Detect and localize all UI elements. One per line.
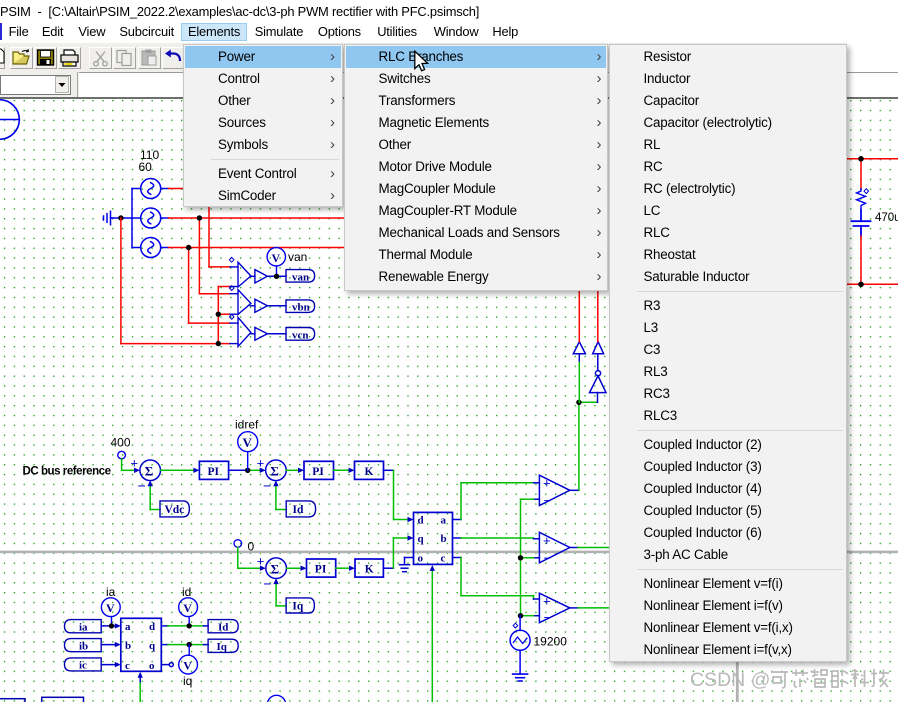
port 0: [234, 540, 242, 548]
svg-text:b: b: [125, 640, 131, 652]
ground (3-phase neutral): [104, 211, 113, 224]
label tag ib: [65, 639, 102, 653]
wire: K1 to dq block d input: [384, 470, 414, 522]
svg-text:19200: 19200: [534, 634, 568, 648]
AC source VC: [141, 238, 161, 258]
svg-text:Id: Id: [293, 504, 304, 516]
svg-text:c: c: [125, 660, 130, 672]
wire: S3 out to PI3: [286, 567, 301, 569]
summer S3: [257, 553, 287, 591]
wire: ib to U5: [101, 642, 121, 647]
wire: phase C red: [169, 248, 344, 324]
svg-text:+: +: [543, 594, 551, 609]
svg-text:−: −: [263, 575, 271, 591]
svg-text:+: +: [543, 476, 551, 491]
svg-text:Vdc: Vdc: [165, 504, 185, 516]
wire: U5 o out open: [161, 663, 173, 667]
port 400: [118, 451, 126, 459]
svg-text:+: +: [257, 456, 265, 471]
ammeter ia: [101, 598, 120, 626]
svg-text:vbn: vbn: [292, 302, 310, 314]
ammeter iq: [179, 645, 198, 674]
label tag ia: [65, 620, 102, 634]
wire: CMP1 output up to gate node: [570, 402, 598, 490]
label tag Vdc: [160, 501, 189, 517]
svg-text:DC bus reference: DC bus reference: [23, 466, 111, 478]
svg-text:K: K: [365, 466, 374, 478]
label tag Id (measured): [208, 620, 238, 634]
wire: ia to U5: [101, 623, 121, 628]
svg-text:PI: PI: [315, 564, 327, 576]
marker diamond R: [864, 189, 869, 194]
svg-text:−: −: [544, 550, 552, 565]
inverter NOT1: [590, 371, 607, 403]
voltmeter idref: [238, 432, 258, 471]
svg-text:Σ: Σ: [270, 464, 279, 479]
svg-text:470u: 470u: [875, 212, 898, 224]
summer S1: [131, 456, 161, 494]
svg-text:c: c: [441, 553, 446, 565]
wire: CMP2 output: [570, 547, 609, 549]
comparator CMP2: [534, 532, 570, 563]
node: q out tap: [187, 642, 192, 647]
wire: 0 to summer S3: [238, 547, 261, 568]
svg-text:V: V: [272, 251, 281, 265]
gate driver T2: [593, 342, 604, 371]
AC source VA: [141, 179, 161, 199]
ji: [871, 669, 889, 687]
wire: T1 down to gate node: [578, 362, 580, 402]
wire: theta input to U4 bottom: [430, 565, 435, 702]
transformation block abc->dq U5: [121, 618, 162, 672]
wire: 400 to summer S1: [122, 459, 135, 470]
node: carrier tap CMP2: [518, 555, 523, 560]
partial meter bottom center: [267, 695, 285, 702]
svg-text:ib: ib: [79, 641, 88, 653]
label tag Id: [286, 501, 315, 517]
svg-text:0: 0: [248, 540, 255, 554]
svg-text:+: +: [543, 533, 551, 548]
wire: S1 out to PI1: [161, 469, 195, 471]
wire: T1 red up: [578, 290, 580, 342]
summer S2: [257, 456, 287, 494]
svg-text:q: q: [149, 640, 156, 652]
svg-text:vcn: vcn: [292, 330, 309, 342]
page boundary line vertical: [736, 99, 739, 702]
marker diamond VTRI: [513, 623, 518, 628]
neng: [832, 670, 848, 688]
wire: S1 bottom to Vdc: [150, 486, 160, 510]
node: phase B tap: [197, 215, 202, 220]
svg-text:+: +: [131, 456, 139, 471]
svg-text:PI: PI: [312, 466, 324, 478]
svg-text:ic: ic: [79, 660, 87, 672]
AC source VB: [141, 208, 161, 228]
partial element bottom-left 1: [0, 699, 25, 702]
svg-text:+: +: [257, 553, 265, 568]
ke: [771, 672, 788, 688]
marker diamond U3: [229, 315, 234, 320]
svg-text:d: d: [149, 621, 155, 633]
transformation block dq->abc U4: [414, 512, 453, 564]
wire: buffer outputs to labels: [267, 276, 286, 334]
marker diamond U1: [229, 257, 234, 262]
wire: S2 bottom to Id: [276, 486, 286, 510]
comparator CMP3: [534, 593, 570, 623]
wire: PI2 to K1: [334, 469, 350, 471]
wire: S3 bottom to Iq: [276, 583, 286, 606]
gain block K1: [355, 461, 384, 479]
subtractor U1 (van): [230, 262, 255, 287]
svg-text:PI: PI: [208, 466, 220, 478]
label tag ic: [65, 658, 102, 672]
xin: [792, 670, 808, 688]
subtractor U2 (vbn): [230, 290, 255, 315]
svg-text:60: 60: [139, 160, 153, 174]
wire: U5 d out to Id tag: [161, 625, 208, 627]
svg-text:Id: Id: [218, 622, 228, 634]
subtractor U3 (vcn): [230, 317, 255, 346]
PI block PI1: [199, 461, 228, 479]
buffer B2: [255, 299, 268, 312]
PI block PI2: [304, 461, 334, 479]
wire: S2 out to PI2: [286, 469, 298, 471]
menu 1 : Elements dropdown: [183, 44, 343, 207]
svg-text:ia: ia: [79, 622, 88, 634]
node: idref tap: [245, 468, 250, 473]
wire: U5 theta input bottom: [138, 672, 143, 702]
wire: U4 c out to comparator CMP3: [453, 558, 540, 600]
partial element bottom-left 2: [42, 697, 84, 702]
svg-text:−: −: [138, 478, 146, 494]
PI block PI3: [307, 559, 336, 577]
comparator CMP1: [534, 475, 570, 505]
wire: T2 red up: [597, 290, 599, 342]
page boundary line horizontal: [0, 551, 898, 554]
buffer B3: [255, 327, 268, 340]
svg-text:Σ: Σ: [271, 562, 280, 577]
label tag van: [286, 270, 315, 284]
svg-text:van: van: [292, 271, 309, 283]
mouse cursor: [413, 50, 437, 76]
gain block K2: [355, 559, 383, 577]
wire: neutral red run: [121, 218, 230, 344]
label tag vcn: [286, 328, 315, 342]
ke2: [851, 669, 869, 687]
ground at U4 o input: [399, 558, 413, 572]
svg-text:400: 400: [111, 436, 131, 450]
svg-text:−: −: [263, 478, 271, 494]
wire: branch bottom red: [847, 236, 898, 284]
wire: CMP3 output: [570, 607, 609, 609]
svg-text:b: b: [441, 533, 447, 545]
svg-text:Iq: Iq: [292, 600, 303, 612]
wire: carrier net vertical: [521, 499, 534, 616]
node: ia meter tap: [109, 623, 114, 628]
buffer B1: [255, 270, 268, 283]
svg-text:V: V: [183, 601, 192, 615]
svg-text:idref: idref: [235, 418, 259, 432]
svg-text:o: o: [418, 553, 424, 565]
svg-text:−: −: [544, 493, 552, 508]
carrier source VTRI 19200: [510, 616, 530, 674]
ground below VTRI: [513, 674, 528, 681]
wire: K2 to dq block q input: [383, 535, 413, 568]
svg-text:V: V: [106, 601, 115, 615]
svg-text:q: q: [418, 533, 425, 545]
menu 3 : RLC Branches submenu: [609, 44, 848, 662]
wire: PI1 to S2: [229, 469, 248, 471]
svg-text:a: a: [441, 515, 447, 527]
svg-text:V: V: [183, 659, 192, 673]
zhi: [811, 669, 827, 687]
svg-text:K: K: [365, 564, 374, 576]
wire: phase A red: [169, 189, 231, 267]
resistor R load: [857, 189, 866, 211]
node: rail bottom junction: [858, 282, 864, 288]
wire: U4 b out to comparator CMP2: [453, 537, 540, 540]
wire: PI3 to K2: [336, 567, 350, 569]
ammeter id: [179, 598, 198, 626]
label tag Iq (measured): [208, 639, 238, 653]
node: van meter tap: [274, 274, 279, 279]
capacitor C 470u (electrolytic): [852, 211, 871, 236]
svg-text:Σ: Σ: [145, 464, 154, 479]
svg-text:−: −: [544, 610, 552, 625]
marker diamond U2: [229, 286, 234, 291]
menu 2 : Power submenu: [344, 44, 609, 291]
node: d out tap: [187, 623, 192, 628]
svg-text:ia: ia: [106, 585, 116, 599]
wire: blue bus joining source left terminals: [112, 189, 141, 248]
svg-text:o: o: [149, 660, 155, 672]
DC bus top rail (red): [847, 159, 898, 189]
watermark: [690, 668, 898, 694]
svg-text:id: id: [182, 585, 191, 599]
svg-text:Iq: Iq: [217, 641, 228, 653]
label tag Iq (control): [286, 598, 314, 613]
wire: phase B red: [169, 218, 344, 294]
svg-text:a: a: [125, 621, 131, 633]
svg-text:d: d: [418, 515, 424, 527]
voltmeter (partial, canvas left edge): [0, 100, 19, 140]
svg-text:van: van: [288, 250, 307, 264]
gate driver T1: [573, 342, 585, 363]
node: neutral junction: [118, 215, 123, 220]
node: neutral tap 1: [216, 312, 221, 317]
label tag vbn: [286, 300, 315, 314]
node: neutral tap 2: [216, 341, 221, 346]
node: gate signal junction: [576, 400, 581, 405]
voltmeter van: [267, 248, 285, 277]
node: phase C tap: [186, 245, 191, 250]
node: rail top junction: [858, 156, 864, 162]
wire: U5 q out to Iq tag: [161, 644, 208, 646]
wire: ic to U5: [101, 662, 121, 667]
node: carrier tap CMP3: [518, 613, 523, 618]
svg-text:iq: iq: [183, 674, 192, 688]
svg-text:V: V: [243, 435, 253, 450]
wire: source right stubs (blue): [161, 189, 169, 248]
wire: U4 a out to comparator CMP1: [453, 483, 540, 520]
